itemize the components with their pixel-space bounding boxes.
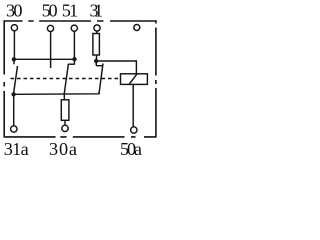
svg-text:51: 51 xyxy=(62,1,79,21)
svg-text:50: 50 xyxy=(42,1,58,21)
svg-text:50a: 50a xyxy=(120,139,142,159)
svg-text:30a: 30a xyxy=(49,139,77,159)
svg-text:30: 30 xyxy=(6,1,23,21)
svg-text:31: 31 xyxy=(90,1,104,21)
svg-text:31a: 31a xyxy=(4,139,29,159)
